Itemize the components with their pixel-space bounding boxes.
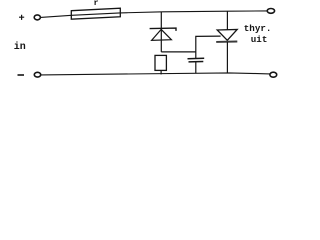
svg-text:in: in bbox=[14, 41, 26, 53]
svg-text:r: r bbox=[94, 0, 99, 8]
svg-text:thyr.: thyr. bbox=[244, 23, 272, 34]
svg-text:uit: uit bbox=[251, 34, 268, 45]
